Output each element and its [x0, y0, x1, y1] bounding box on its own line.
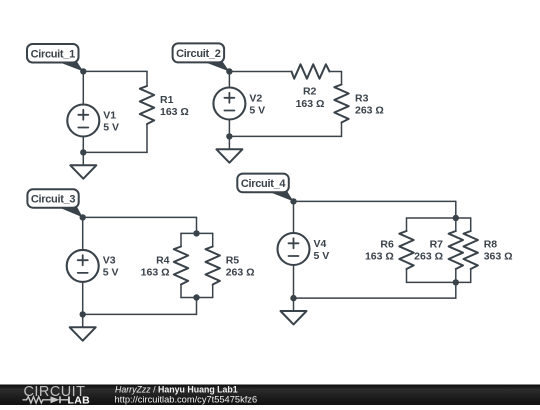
svg-text:HarryZzz / Hanyu Huang Lab1: HarryZzz / Hanyu Huang Lab1 [115, 384, 238, 394]
svg-text:363 Ω: 363 Ω [484, 250, 513, 262]
svg-text:263 Ω: 263 Ω [226, 266, 255, 278]
svg-text:R3: R3 [355, 92, 369, 104]
svg-text:Circuit_4: Circuit_4 [241, 178, 287, 190]
svg-text:LAB: LAB [68, 394, 91, 405]
svg-text:V4: V4 [314, 238, 327, 250]
svg-text:V2: V2 [249, 92, 262, 104]
svg-text:Circuit_2: Circuit_2 [176, 48, 221, 60]
svg-text:R4: R4 [156, 254, 170, 266]
svg-text:R8: R8 [484, 238, 498, 250]
svg-text:163 Ω: 163 Ω [141, 266, 170, 278]
svg-text:V3: V3 [103, 255, 116, 267]
svg-text:263 Ω: 263 Ω [414, 250, 443, 262]
svg-text:5 V: 5 V [249, 104, 265, 116]
svg-text:5 V: 5 V [314, 250, 330, 262]
svg-text:Circuit_1: Circuit_1 [31, 48, 76, 60]
svg-text:R6: R6 [380, 238, 394, 250]
svg-text:R2: R2 [303, 85, 317, 97]
svg-text:http://circuitlab.com/cy7t5547: http://circuitlab.com/cy7t55475kfz6 [115, 394, 258, 404]
svg-text:V1: V1 [103, 109, 116, 121]
svg-text:163 Ω: 163 Ω [365, 250, 394, 262]
svg-text:163 Ω: 163 Ω [296, 98, 325, 110]
svg-text:5 V: 5 V [103, 121, 119, 133]
svg-text:R1: R1 [160, 94, 174, 106]
svg-text:R5: R5 [226, 254, 240, 266]
svg-text:R7: R7 [430, 238, 444, 250]
svg-text:5 V: 5 V [103, 267, 119, 279]
svg-text:263 Ω: 263 Ω [355, 104, 384, 116]
svg-text:Circuit_3: Circuit_3 [31, 194, 76, 206]
svg-text:163 Ω: 163 Ω [160, 106, 189, 118]
